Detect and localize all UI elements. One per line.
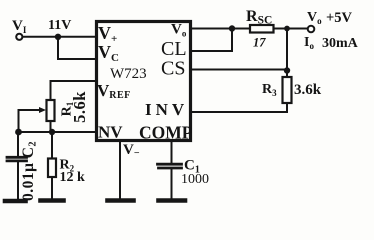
svg-text:17: 17 <box>253 36 266 50</box>
svg-text:CS: CS <box>161 58 185 80</box>
svg-text:COMP: COMP <box>139 123 193 143</box>
svg-text:12 k: 12 k <box>60 170 86 185</box>
svg-text:1000: 1000 <box>181 172 209 187</box>
svg-text:+5V: +5V <box>326 10 353 26</box>
svg-text:11V: 11V <box>48 18 71 33</box>
svg-text:NV: NV <box>98 123 123 142</box>
svg-text:0.01μ C2: 0.01μ C2 <box>20 141 39 201</box>
svg-text:30mA: 30mA <box>322 36 359 51</box>
svg-text:W723: W723 <box>110 66 147 82</box>
svg-text:3.6k: 3.6k <box>294 82 322 98</box>
svg-text:INV: INV <box>145 100 188 119</box>
svg-text:5.6k: 5.6k <box>70 91 89 123</box>
